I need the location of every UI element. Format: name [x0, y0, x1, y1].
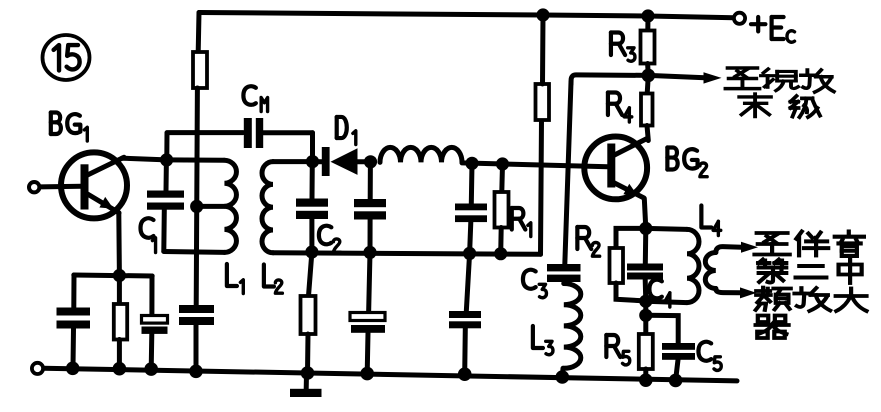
wire top-left corner down — [196, 13, 202, 53]
capacitor emitter bypass right hollow plate — [142, 316, 168, 324]
arrow sound IF bottom — [740, 287, 757, 298]
capacitor base branch lower — [449, 311, 481, 318]
wire C5 lower — [676, 360, 678, 380]
label +Ec — [751, 17, 784, 39]
capacitor tank2 right — [354, 199, 386, 207]
junction rail right cap — [144, 362, 158, 376]
label text qi (device) — [756, 316, 789, 339]
label text zhi (to) — [726, 68, 760, 89]
wire video out arrow line — [648, 75, 705, 77]
label text zhi2 (to) — [755, 233, 790, 255]
label R4 — [608, 92, 622, 115]
junction rail C5 — [669, 374, 683, 388]
resistor R4 — [641, 94, 653, 126]
transistor BG2 emitter arrow — [623, 184, 637, 196]
wire top supply rail — [199, 13, 734, 18]
label C3 — [523, 270, 536, 289]
wire BG2 emitter down — [644, 199, 646, 229]
wire R2 jog top — [616, 228, 646, 248]
wire divider left — [571, 75, 648, 84]
inductor L3 — [564, 284, 581, 369]
junction bus x370 — [363, 246, 376, 259]
wire hollow cap branch upper — [369, 252, 370, 314]
label text er (two) — [796, 266, 827, 278]
wire bias line middle — [196, 88, 197, 306]
wire R4 to collector — [647, 126, 648, 141]
junction rail L3 — [556, 370, 570, 384]
wire cap branch x370 lower — [368, 220, 373, 253]
junction L1 tap — [190, 200, 203, 213]
wire R4 upper — [647, 75, 648, 93]
wire R1 upper — [499, 164, 505, 192]
wire cap471 middle — [470, 222, 471, 253]
label text di (number) — [758, 260, 786, 283]
terminal +Ec — [734, 13, 745, 24]
label L1 — [227, 264, 237, 286]
diode D1 triangle — [331, 148, 358, 175]
wire cap471 upper — [469, 163, 475, 204]
junction R3-R4 — [642, 69, 656, 83]
wire node to D1 — [313, 159, 324, 164]
wire hollow cap branch lower — [365, 333, 371, 374]
wire R2 jog bottom — [616, 283, 646, 301]
ground — [290, 389, 322, 397]
label text ban (sound) — [796, 232, 828, 256]
junction L4-R2-C4 — [639, 295, 652, 308]
transistor BG2 base bar — [607, 144, 615, 188]
label L2 — [264, 264, 274, 286]
wire CM left — [167, 130, 243, 135]
wire divider down to C3 — [565, 82, 571, 265]
label text da (big) — [836, 289, 867, 312]
capacitor C3 — [547, 264, 581, 271]
wire C1 branch lower — [161, 210, 167, 252]
junction top rail x648 — [641, 9, 654, 22]
wire L3 to rail — [560, 368, 566, 376]
wire bottom ground rail — [43, 368, 737, 381]
wire junction to junction — [643, 301, 648, 315]
wire R5 lower — [643, 369, 648, 380]
inductor L4 secondary — [705, 253, 716, 289]
wire cap465 upper — [466, 253, 469, 311]
wire cap465 lower — [462, 328, 468, 374]
wire tank2 top lead — [273, 159, 313, 164]
label text fang (amp) — [801, 70, 834, 92]
wire tank1 top lead — [167, 157, 224, 162]
label text yin (sound2) — [835, 232, 864, 256]
junction rail cap465 — [458, 367, 472, 381]
junction top rail x541 — [536, 8, 549, 21]
wire L4 primary top lead — [646, 228, 687, 229]
capacitor base branch upper — [455, 204, 487, 211]
inductor L2 — [262, 162, 273, 253]
junction node CM-D1 — [306, 155, 319, 168]
capacitor C2 — [296, 199, 328, 207]
label text pin (frequency) — [756, 288, 791, 311]
transistor BG1 emitter arrow — [99, 197, 113, 209]
arrow sound IF top — [741, 242, 758, 253]
junction rail hollow cap — [360, 367, 374, 381]
label R5 — [606, 335, 620, 357]
inductor L4 primary — [687, 229, 699, 302]
wire secondary bottom lead — [716, 289, 741, 293]
label BG1 — [51, 112, 81, 134]
wire R3 upper — [645, 16, 650, 31]
diode D1 cathode bar — [322, 147, 330, 176]
label L3 — [533, 326, 543, 348]
wire right cap branch lower — [149, 334, 155, 370]
figure number 15 circle — [43, 35, 90, 80]
wire bias line lower — [194, 325, 199, 372]
capacitor branch solid plate — [351, 325, 385, 333]
terminal input bottom-left — [32, 363, 43, 374]
wire left cap branch lower — [71, 329, 77, 367]
transistor BG1 emitter stroke — [88, 194, 120, 213]
inductor L1 — [225, 160, 237, 252]
wire choke to BG2 base — [462, 163, 608, 167]
capacitor C5 — [662, 343, 695, 350]
wire bus corner up — [541, 120, 542, 254]
label CM — [243, 86, 255, 105]
wire emitter resistor lower — [117, 340, 122, 369]
wire right cap branch upper — [149, 276, 154, 316]
label R2 — [577, 227, 591, 249]
junction emitter node BG2 — [639, 222, 652, 235]
wire C4 upper — [643, 228, 649, 264]
junction rail R5 — [639, 373, 653, 387]
capacitor C1 — [147, 191, 184, 198]
capacitor emitter bypass left — [57, 308, 91, 316]
wire secondary top lead — [716, 247, 742, 253]
transistor BG1 collector stroke — [88, 157, 125, 175]
label C1 — [141, 218, 154, 237]
junction rail left cap — [66, 362, 80, 376]
transistor BG1 circle — [61, 152, 127, 218]
capacitor branch hollow plate — [350, 313, 385, 321]
transistor BG2 circle — [584, 137, 647, 200]
junction base wire R1 branch — [496, 157, 509, 170]
wire CM right — [263, 130, 312, 135]
capacitor C4 — [627, 264, 663, 271]
resistor R1 — [495, 192, 509, 228]
ground stub — [304, 374, 309, 389]
wire x541 top — [540, 15, 546, 84]
capacitor CM — [244, 118, 252, 148]
wire D1 to node — [358, 159, 371, 164]
resistor tank branch — [301, 296, 316, 334]
wire emitter resistor upper — [117, 276, 122, 305]
label L4 — [701, 205, 711, 227]
resistor R5 — [639, 334, 653, 369]
label C5 — [698, 342, 711, 361]
junction bus R1 — [494, 247, 507, 260]
junction emitter node — [113, 269, 126, 282]
wire R3 lower — [645, 64, 651, 76]
resistor R2 — [610, 248, 624, 283]
junction rail resistor branch — [301, 366, 315, 380]
wire cap branch x370 upper — [368, 162, 373, 200]
junction node collector-tank — [160, 153, 173, 166]
label BG2 — [667, 147, 697, 169]
transistor BG2 collector stroke — [613, 139, 648, 157]
wire C1 branch upper — [164, 160, 169, 191]
resistor emitter — [114, 304, 127, 340]
wire BG1 collector to node — [122, 158, 167, 160]
wire resistor branch upper — [309, 252, 312, 296]
wire BG1 emitter down — [116, 213, 122, 276]
wire resistor branch lower — [305, 334, 311, 373]
wire mid bus — [273, 253, 541, 255]
capacitor decoupling on bias line — [179, 305, 214, 313]
wire L4 primary bottom lead — [646, 301, 687, 302]
wire R5 upper — [643, 315, 648, 334]
wire CM corner vertical — [164, 133, 169, 158]
junction base wire cap branch — [465, 157, 478, 170]
resistor feed x541 — [536, 84, 550, 120]
label R3 — [611, 32, 625, 55]
wire L1 tap — [197, 204, 225, 209]
terminal input — [29, 182, 39, 192]
junction bus C2 — [305, 245, 318, 258]
wire tank1 bottom lead — [164, 249, 225, 255]
figure number 15 — [54, 45, 80, 70]
capacitor emitter bypass right solid plate — [142, 327, 168, 334]
wire C3 to L3 — [561, 282, 566, 284]
wire CM right corner vertical — [310, 133, 315, 159]
label D1 — [337, 117, 347, 138]
junction R5-C5 split — [639, 309, 652, 322]
wire R1 lower — [498, 228, 504, 254]
arrow video out — [704, 72, 722, 83]
resistor R3 — [641, 31, 655, 64]
label text zhong (middle) — [839, 260, 862, 284]
wire input to BG1 base — [40, 184, 82, 190]
junction rail emitter resistor — [113, 362, 127, 376]
label R1 — [512, 208, 526, 230]
label C2 — [319, 226, 331, 245]
wire C5 jog — [646, 315, 678, 343]
wire C4 lower — [643, 280, 649, 302]
resistor bias top-left — [193, 52, 207, 88]
label C4 — [649, 280, 661, 299]
wire C2 branch upper — [310, 162, 315, 199]
junction rail bias line — [189, 365, 203, 379]
label text shi (video) — [761, 69, 798, 91]
wire C2 branch lower — [309, 219, 314, 252]
inductor choke — [380, 147, 462, 162]
label text ji (stage) — [791, 96, 821, 117]
label text mo (final) — [739, 94, 771, 117]
wire left cap branch upper — [71, 275, 76, 308]
wire emitter node horizontal — [74, 275, 152, 276]
transistor BG2 emitter stroke — [613, 182, 645, 198]
junction node D1-choke — [364, 155, 377, 168]
junction bus cap471 — [463, 247, 476, 260]
transistor BG1 base bar — [81, 164, 89, 209]
label text fang2 (amplify) — [795, 288, 831, 311]
